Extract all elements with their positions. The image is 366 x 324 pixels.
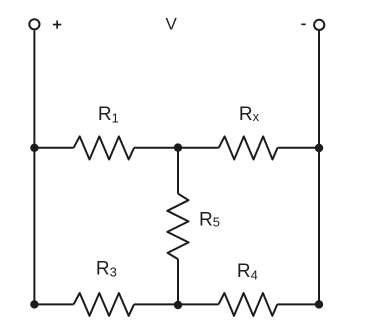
resistor R4 bbox=[219, 293, 278, 316]
wire center vertical bottom lead bbox=[177, 259, 179, 304]
svg-text:Rx: Rx bbox=[239, 104, 260, 125]
terminal + (left) bbox=[29, 19, 39, 29]
svg-text:R3: R3 bbox=[96, 258, 117, 279]
resistor R3 bbox=[74, 293, 134, 316]
wire bottom rail right lead bbox=[277, 303, 319, 305]
terminal - (right) bbox=[314, 20, 324, 30]
resistor R1 bbox=[74, 136, 134, 159]
wire middle rail center segment bbox=[134, 147, 219, 149]
wire middle rail right lead bbox=[278, 147, 320, 149]
node left-middle bbox=[30, 144, 38, 152]
wire center vertical top lead bbox=[177, 148, 179, 194]
label + bbox=[53, 21, 61, 29]
resistor Rx bbox=[219, 136, 278, 159]
label - bbox=[301, 24, 305, 26]
wire bottom rail center segment bbox=[134, 303, 219, 305]
node center-middle bbox=[174, 143, 182, 151]
node right-middle bbox=[315, 144, 323, 152]
wire right vertical bbox=[318, 31, 320, 304]
node center-bottom bbox=[174, 301, 182, 309]
node left-bottom bbox=[30, 300, 38, 308]
svg-text:R4: R4 bbox=[237, 261, 258, 282]
svg-text:V: V bbox=[166, 15, 178, 34]
wire middle rail left lead bbox=[34, 147, 73, 149]
wire left vertical bbox=[33, 30, 35, 304]
resistor R5 bbox=[167, 194, 188, 260]
node right-bottom bbox=[315, 300, 323, 308]
svg-text:R5: R5 bbox=[199, 209, 220, 230]
wire bottom rail left lead bbox=[34, 303, 73, 305]
svg-text:R1: R1 bbox=[98, 104, 119, 125]
